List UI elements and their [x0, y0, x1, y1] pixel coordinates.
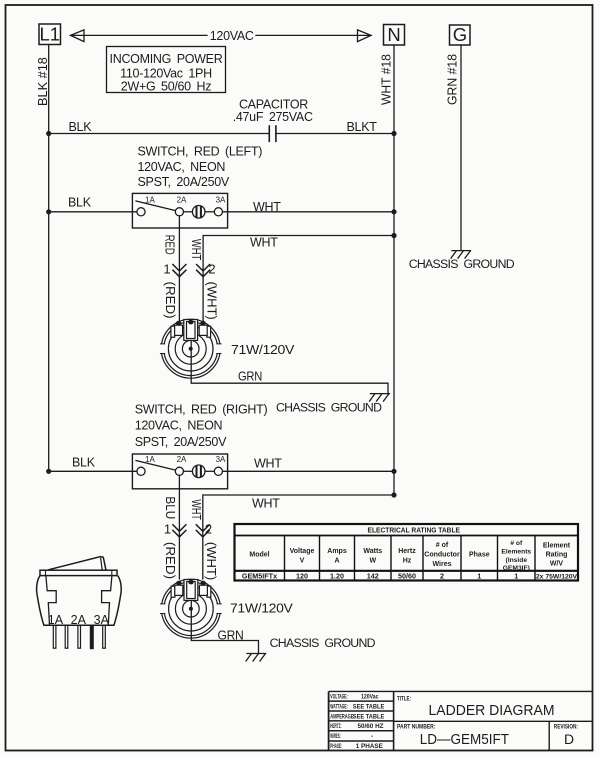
svg-text:Elements: Elements	[501, 549, 531, 556]
svg-text:CHASSIS GROUND: CHASSIS GROUND	[270, 636, 376, 650]
svg-text:SPST, 20A/250V: SPST, 20A/250V	[138, 175, 230, 189]
svg-text:120: 120	[296, 572, 308, 581]
svg-text:LD—GEM5IFT: LD—GEM5IFT	[420, 731, 509, 748]
svg-text:1: 1	[477, 572, 481, 581]
svg-text:50/60: 50/60	[398, 572, 416, 581]
svg-text:GRN #18: GRN #18	[445, 54, 459, 105]
svg-text:2A: 2A	[177, 196, 187, 205]
svg-text:1.20: 1.20	[330, 572, 344, 581]
svg-text:HERTZ:: HERTZ:	[330, 723, 341, 730]
svg-text:SEE TABLE: SEE TABLE	[353, 703, 385, 710]
svg-text:ELECTRICAL RATING TABLE: ELECTRICAL RATING TABLE	[368, 525, 461, 534]
svg-text:RED: RED	[162, 235, 176, 255]
svg-text:V: V	[300, 558, 305, 565]
svg-text:CHASSIS GROUND: CHASSIS GROUND	[276, 400, 382, 414]
svg-text:WHT: WHT	[250, 236, 278, 250]
svg-text:WHT: WHT	[254, 456, 282, 470]
svg-text:1 PHASE: 1 PHASE	[356, 743, 383, 750]
svg-text:WATTAGE:: WATTAGE:	[330, 703, 348, 710]
svg-text:L1: L1	[40, 24, 61, 45]
svg-text:Hertz: Hertz	[398, 548, 416, 555]
svg-text:CHASSIS GROUND: CHASSIS GROUND	[409, 257, 515, 271]
svg-text:50/60 HZ: 50/60 HZ	[358, 723, 384, 730]
svg-text:G: G	[453, 24, 467, 45]
svg-text:BLU: BLU	[163, 496, 177, 519]
svg-text:Element: Element	[543, 543, 571, 550]
svg-text:TITLE:: TITLE:	[397, 695, 411, 702]
svg-text:WHT #18: WHT #18	[379, 54, 393, 105]
svg-text:2A: 2A	[71, 613, 87, 627]
svg-text:71W/120V: 71W/120V	[231, 343, 295, 357]
svg-text:1A: 1A	[145, 455, 155, 464]
svg-text:Phase: Phase	[469, 552, 490, 559]
svg-text:BLK: BLK	[72, 456, 96, 470]
svg-text:BLK: BLK	[69, 120, 93, 134]
svg-text:SPST, 20A/250V: SPST, 20A/250V	[135, 435, 227, 449]
svg-text:PHASE:: PHASE:	[330, 743, 342, 750]
svg-text:1: 1	[163, 262, 170, 277]
svg-text:INCOMING POWER: INCOMING POWER	[110, 52, 223, 66]
svg-text:A: A	[334, 558, 339, 565]
svg-text:(WHT): (WHT)	[204, 542, 219, 580]
svg-text:1: 1	[514, 572, 518, 581]
svg-text:AMPERAGE:: AMPERAGE:	[330, 713, 355, 720]
svg-text:BLKT: BLKT	[347, 120, 378, 134]
svg-text:Conductor: Conductor	[424, 552, 460, 559]
svg-text:D: D	[564, 731, 574, 747]
svg-text:Watts: Watts	[363, 548, 382, 555]
svg-text:WHT: WHT	[253, 200, 281, 214]
svg-text:BLK: BLK	[68, 196, 92, 210]
svg-text:2A: 2A	[177, 455, 187, 464]
svg-text:2: 2	[205, 522, 212, 537]
svg-text:(WHT): (WHT)	[204, 282, 219, 320]
svg-text:Wires: Wires	[432, 561, 451, 568]
svg-text:Hz: Hz	[403, 558, 412, 565]
svg-text:WHT: WHT	[189, 499, 203, 520]
svg-text:Voltage: Voltage	[290, 548, 315, 555]
svg-text:BLK #18: BLK #18	[36, 57, 50, 106]
svg-text:SWITCH, RED (RIGHT): SWITCH, RED (RIGHT)	[135, 403, 268, 417]
svg-text:PART NUMBER:: PART NUMBER:	[397, 724, 436, 731]
svg-text:# of: # of	[436, 542, 449, 549]
svg-text:WIRES:: WIRES:	[330, 733, 341, 740]
svg-text:N: N	[387, 24, 400, 45]
svg-text:REVISION:: REVISION:	[554, 724, 578, 731]
svg-text:GRN: GRN	[238, 370, 262, 384]
svg-text:-: -	[371, 733, 373, 740]
svg-text:2: 2	[208, 262, 215, 277]
svg-text:# of: # of	[510, 540, 523, 547]
svg-text:(RED): (RED)	[163, 542, 177, 579]
svg-text:GRN: GRN	[218, 628, 244, 642]
svg-text:2: 2	[440, 572, 444, 581]
svg-text:142: 142	[367, 572, 379, 581]
svg-text:1A: 1A	[145, 196, 155, 205]
svg-text:1: 1	[164, 522, 171, 537]
svg-text:Rating: Rating	[546, 552, 568, 559]
svg-text:(Inside: (Inside	[506, 557, 528, 564]
svg-text:120VAC: 120VAC	[210, 29, 254, 43]
svg-text:(RED): (RED)	[163, 282, 177, 319]
svg-text:120VAC, NEON: 120VAC, NEON	[138, 160, 226, 174]
svg-text:VOLTAGE:: VOLTAGE:	[330, 694, 348, 701]
svg-text:120VAC, NEON: 120VAC, NEON	[135, 418, 223, 432]
svg-text:1A: 1A	[48, 613, 64, 627]
svg-text:SEE TABLE: SEE TABLE	[353, 713, 385, 720]
svg-text:Amps: Amps	[327, 548, 347, 555]
svg-text:WHT: WHT	[252, 497, 280, 511]
svg-text:3A: 3A	[216, 455, 226, 464]
svg-text:2x 75W/120V: 2x 75W/120V	[536, 574, 578, 581]
svg-text:WHT: WHT	[189, 239, 203, 261]
svg-text:GEM5IFTx: GEM5IFTx	[242, 572, 277, 581]
svg-text:.47uF 275VAC: .47uF 275VAC	[233, 110, 313, 124]
svg-text:3A: 3A	[94, 613, 110, 627]
svg-text:Model: Model	[249, 552, 269, 559]
svg-text:3A: 3A	[216, 196, 226, 205]
svg-text:W: W	[369, 558, 376, 565]
svg-text:2W+G 50/60 Hz: 2W+G 50/60 Hz	[121, 80, 211, 94]
svg-text:120Vac: 120Vac	[361, 694, 379, 701]
svg-text:71W/120V: 71W/120V	[230, 602, 294, 616]
svg-text:SWITCH, RED (LEFT): SWITCH, RED (LEFT)	[138, 145, 263, 159]
svg-text:110-120Vac 1PH: 110-120Vac 1PH	[120, 67, 212, 81]
svg-text:W/V: W/V	[550, 561, 564, 568]
svg-text:LADDER DIAGRAM: LADDER DIAGRAM	[429, 702, 555, 719]
